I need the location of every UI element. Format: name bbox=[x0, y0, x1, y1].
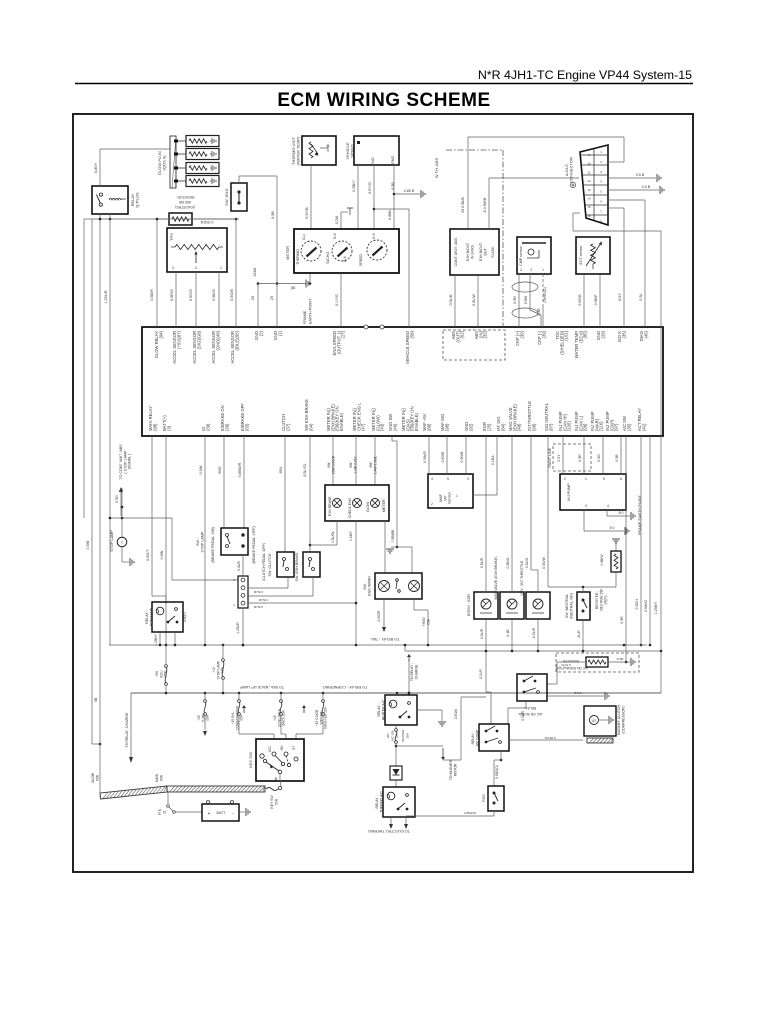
fuse turn 10A bbox=[197, 693, 210, 736]
svg-text:ON: ON bbox=[280, 745, 284, 750]
vehicle speed pin labels bbox=[357, 141, 395, 164]
svg-text:0.5B/P: 0.5B/P bbox=[594, 294, 598, 305]
meter lamps bottom wires bbox=[248, 521, 385, 645]
clutch switch labels bbox=[262, 543, 272, 581]
svg-text:EXH B/CUTIN (HSO): EXH B/CUTIN (HSO) bbox=[466, 243, 474, 261]
glow plugs (4x) bbox=[174, 136, 219, 187]
key sw 50A label bbox=[270, 795, 278, 809]
svg-text:0.5L/R: 0.5L/R bbox=[480, 628, 484, 639]
vehicle speed label bbox=[345, 142, 354, 159]
svg-text:1: 1 bbox=[456, 494, 458, 498]
wire DLC top loop bbox=[468, 137, 624, 162]
A-DLC connector trapezoid bbox=[580, 145, 608, 225]
heater relay gnd bbox=[417, 697, 486, 760]
wire gnd sw bbox=[386, 436, 412, 573]
wire DLC pin6 to ECM diag bbox=[608, 200, 645, 327]
resistor value label bbox=[201, 221, 214, 225]
magnet clutch gnd bbox=[599, 716, 614, 724]
svg-text:RELAY ;ECM MAIN: RELAY ;ECM MAIN bbox=[145, 607, 153, 626]
wire meter tacho to ECM bbox=[335, 273, 341, 327]
wire 1.25LR bbox=[104, 214, 111, 645]
wire batt feed bbox=[160, 436, 166, 645]
neutral resistor label bbox=[595, 588, 608, 610]
svg-text:8 0.5W/B: 8 0.5W/B bbox=[483, 197, 487, 212]
wire relay acon down bbox=[508, 701, 526, 724]
wire DLC pin7 to ECM isok bbox=[608, 208, 624, 327]
svg-text:(BRAKE PEDAL ;OFF): (BRAKE PEDAL ;OFF) bbox=[252, 526, 256, 563]
wire meter qas bbox=[0, 0, 1, 1]
svg-text:SW ;CLUTCH: SW ;CLUTCH bbox=[268, 553, 272, 576]
left h wire y219 bbox=[84, 218, 239, 518]
heater relay label bbox=[377, 699, 385, 720]
svg-text:BATT: BATT bbox=[217, 811, 227, 815]
wire ABS to ECM 2 bbox=[472, 275, 478, 327]
svg-text:2: 2 bbox=[195, 266, 197, 270]
wire relay main bottom bbox=[154, 611, 187, 646]
wire ebrake off bbox=[238, 436, 244, 528]
stop lamp label bbox=[110, 530, 114, 552]
svg-text:0.5L/R: 0.5L/R bbox=[479, 669, 483, 679]
CMP shield ellipses bbox=[512, 282, 538, 318]
svg-text:0.85G(O): 0.85G(O) bbox=[495, 765, 499, 779]
svg-text:0.5L/R: 0.5L/R bbox=[532, 627, 536, 638]
wire right outer bbox=[654, 560, 662, 693]
svg-text:0.1B/Y: 0.1B/Y bbox=[349, 530, 353, 541]
svg-text:B 0: B 0 bbox=[619, 511, 624, 515]
meter lamps top labels bbox=[327, 455, 377, 474]
wire CMP shield bbox=[537, 274, 547, 327]
wire MAG valve bbox=[506, 436, 512, 651]
svg-text:TO RELAY ; TAIL: TO RELAY ; TAIL bbox=[370, 637, 399, 641]
wire relay top to glow plugs bbox=[100, 149, 170, 186]
svg-text:TPS: TPS bbox=[169, 233, 174, 241]
wire TPS p2 to ECM bbox=[195, 272, 197, 327]
svg-text:1: 1 bbox=[542, 268, 544, 272]
svg-text:0.5G: 0.5G bbox=[115, 495, 119, 503]
ECM main relay label bbox=[145, 607, 153, 626]
svg-text:3: 3 bbox=[172, 266, 174, 270]
wire ac sw bbox=[620, 436, 627, 663]
wire vs gnd to ground bbox=[394, 189, 425, 198]
svg-text:0.2W: 0.2W bbox=[335, 215, 339, 224]
gnd wire labels 25 bbox=[251, 296, 274, 300]
wire exh brake sw down bbox=[248, 577, 313, 596]
wire DLC gnd1 bbox=[608, 173, 661, 182]
wire labels TPS bbox=[150, 289, 234, 301]
svg-text:15: 15 bbox=[587, 205, 591, 209]
idle switch box bbox=[231, 183, 247, 211]
wire inj can hi bbox=[557, 436, 563, 474]
wire ebrake on bbox=[218, 436, 224, 528]
svg-text:5: 5 bbox=[603, 477, 605, 481]
svg-text:0.5G/B: 0.5G/B bbox=[578, 294, 582, 306]
wire IG bbox=[199, 436, 205, 645]
wire thermo relay bottom bbox=[389, 817, 393, 829]
to-ABS arrow bbox=[119, 487, 123, 516]
svg-text:TO 55A ; BACK-UP LAMP: TO 55A ; BACK-UP LAMP bbox=[239, 685, 284, 689]
svg-text:0.5L/B: 0.5L/B bbox=[449, 294, 453, 305]
svg-text:0.85Y/G: 0.85Y/G bbox=[544, 736, 556, 740]
stop lamp wiring bbox=[110, 488, 172, 537]
fuse ehl marker bbox=[231, 693, 274, 739]
relay R-GLOW label bbox=[130, 192, 139, 207]
VSV throttle box bbox=[520, 560, 550, 619]
exh brake switch label bbox=[295, 552, 299, 582]
svg-text:D 5R: D 5R bbox=[617, 657, 625, 661]
to electro thermo label bbox=[368, 829, 410, 833]
svg-text:0.5O: 0.5O bbox=[597, 454, 601, 462]
svg-text:(CLUTCH PEDAL ;OFF): (CLUTCH PEDAL ;OFF) bbox=[262, 543, 266, 581]
wire tacho aux bbox=[335, 208, 353, 229]
wire ABS out bbox=[483, 178, 579, 229]
wire idle-sw to ECM bbox=[192, 218, 237, 327]
ECT sensor box bbox=[576, 237, 610, 274]
wire meter glow bbox=[374, 436, 376, 485]
glow lamp bbox=[366, 499, 380, 513]
svg-text:0.5B/BR: 0.5B/BR bbox=[391, 529, 395, 542]
svg-text:SW ;EXH BRAKE: SW ;EXH BRAKE bbox=[295, 552, 299, 582]
MAG valve box bbox=[494, 556, 524, 619]
svg-text:EGR/V ; EGR: EGR/V ; EGR bbox=[467, 594, 471, 616]
ECM top pin labels bbox=[154, 330, 648, 364]
wire ECT 1 bbox=[578, 274, 584, 327]
inj pump pin numbers bbox=[564, 477, 622, 508]
svg-text:13: 13 bbox=[587, 188, 591, 192]
svg-text:25: 25 bbox=[270, 296, 274, 300]
svg-text:VSV ; INT THROTTLE: VSV ; INT THROTTLE bbox=[520, 560, 524, 596]
svg-text:0.5Y: 0.5Y bbox=[618, 293, 622, 301]
svg-text:CHECK ENG: CHECK ENG bbox=[348, 497, 352, 518]
svg-text:0.5W: 0.5W bbox=[199, 465, 203, 474]
meter label bbox=[285, 246, 290, 260]
fuse wiper washer bbox=[296, 693, 328, 739]
svg-text:0.5Y/B: 0.5Y/B bbox=[305, 207, 309, 219]
twist line dashed box bbox=[553, 444, 591, 471]
svg-text:FLASH: FLASH bbox=[491, 246, 495, 257]
thermo relay label bbox=[375, 791, 383, 813]
CMP pin numbers bbox=[520, 268, 544, 272]
resister AC labels bbox=[556, 659, 588, 670]
thermo unit label bbox=[291, 136, 300, 165]
svg-text:(SHIELD): (SHIELD) bbox=[543, 287, 547, 302]
wire vs1 bbox=[352, 165, 358, 229]
relay R-GLOW contacts bbox=[96, 193, 126, 206]
wire inj can lo bbox=[578, 436, 584, 474]
fusible link glow 60A bbox=[91, 772, 167, 799]
svg-text:0.5G/G: 0.5G/G bbox=[189, 289, 193, 301]
TPS box bbox=[167, 228, 227, 272]
svg-text:GND(29): GND(29) bbox=[596, 330, 605, 340]
AC comp relay label bbox=[471, 729, 479, 747]
resistor text block bbox=[175, 195, 195, 209]
key switch contacts bbox=[260, 745, 298, 781]
magnet clutch label bbox=[617, 704, 625, 735]
wire MAF 1 iat bbox=[473, 436, 497, 495]
svg-text:0.5 B: 0.5 B bbox=[642, 185, 651, 189]
svg-text:6: 6 bbox=[620, 477, 622, 481]
wire ECM gnd to earth bbox=[257, 282, 279, 327]
wire relay acon gnd bbox=[547, 691, 609, 700]
svg-text:5B: 5B bbox=[94, 697, 98, 702]
svg-text:0.5R: 0.5R bbox=[513, 296, 517, 304]
svg-text:0.5Y/G: 0.5Y/G bbox=[561, 663, 571, 667]
ECT sensor symbol bbox=[586, 242, 605, 270]
AC on signal relay box bbox=[517, 674, 547, 701]
svg-text:0.1B/L: 0.1B/L bbox=[491, 455, 495, 465]
svg-text:W TH ;ABS: W TH ;ABS bbox=[434, 157, 439, 178]
svg-text:0.5R: 0.5R bbox=[620, 616, 624, 624]
svg-text:METER: METER bbox=[382, 499, 386, 512]
bus2 dest labels bbox=[239, 685, 367, 713]
svg-text:2: 2 bbox=[431, 502, 433, 506]
wire PUS bottom bbox=[404, 811, 494, 829]
TPS potentiometer bbox=[171, 244, 223, 263]
svg-text:0.5B/Y: 0.5B/Y bbox=[352, 180, 356, 192]
wire glow-relay to ECM bbox=[157, 219, 169, 327]
svg-text:16: 16 bbox=[587, 214, 591, 218]
svg-text:0.5W/G: 0.5W/G bbox=[644, 600, 648, 612]
wire ABS in bbox=[461, 137, 468, 229]
svg-text:D-4: D-4 bbox=[302, 234, 306, 239]
svg-text:3: 3 bbox=[530, 268, 532, 272]
fuse leveling back bbox=[273, 693, 286, 739]
svg-text:TWIST LINE: TWIST LINE bbox=[548, 447, 552, 468]
ECT sensor label bbox=[579, 245, 583, 265]
eng warn contacts bbox=[379, 579, 420, 593]
magnet clutch box bbox=[584, 706, 616, 743]
svg-text:MAG VALVE (EXH BRAKE): MAG VALVE (EXH BRAKE) bbox=[494, 556, 498, 599]
svg-text:5: 5 bbox=[447, 477, 449, 481]
svg-text:JXM1: JXM1 bbox=[253, 267, 257, 277]
wire eng warn down bbox=[382, 599, 428, 645]
svg-text:B-6: B-6 bbox=[343, 256, 347, 261]
bus1b horizontal right bbox=[404, 644, 661, 653]
svg-text:CONT UNIT ;ABS: CONT UNIT ;ABS bbox=[454, 237, 458, 266]
thermo unit box bbox=[302, 136, 336, 165]
exh brake lamp bbox=[328, 496, 342, 516]
svg-text:63: 63 bbox=[592, 719, 596, 723]
svg-text:IMS SW: IMS SW bbox=[178, 200, 191, 204]
meter gauge labels bbox=[296, 249, 363, 266]
fuse stop lamp 10A bbox=[212, 645, 225, 693]
frame earth point label right bbox=[638, 494, 642, 534]
svg-text:0.5W: 0.5W bbox=[86, 540, 90, 549]
svg-text:0.5L/GL: 0.5L/GL bbox=[331, 531, 335, 543]
JXM1 label bbox=[253, 267, 257, 277]
inj pump label bbox=[567, 483, 571, 501]
svg-text:KEY SW: KEY SW bbox=[248, 752, 253, 768]
wire 0.5W left bbox=[86, 540, 90, 549]
svg-text:CMP sensor: CMP sensor bbox=[519, 245, 523, 266]
CMP sensor symbol bbox=[522, 243, 546, 258]
svg-text:B-9: B-9 bbox=[333, 233, 337, 238]
svg-text:0.5B: 0.5B bbox=[271, 211, 275, 219]
wire batt from links bbox=[158, 792, 202, 815]
svg-text:0.4B: 0.4B bbox=[506, 629, 510, 637]
svg-text:3: 3 bbox=[585, 504, 587, 508]
fuse AC con bbox=[386, 725, 409, 762]
resister AC resistor bbox=[586, 657, 608, 667]
wire label 0.85Y bbox=[93, 162, 98, 173]
meter tacho gauge bbox=[332, 241, 352, 261]
outer frame bbox=[73, 114, 693, 872]
wire comp relay down bbox=[494, 751, 502, 786]
wire meter exh brake lamp bbox=[332, 436, 334, 485]
thermo relay box bbox=[383, 787, 415, 817]
frame earth point label bbox=[303, 298, 313, 324]
svg-text:0.85 B: 0.85 B bbox=[404, 189, 415, 193]
svg-text:RELAYQ-PLUG: RELAYQ-PLUG bbox=[130, 192, 139, 207]
neutral resistor bbox=[600, 539, 621, 587]
svg-text:N*R 4JH1-TC Engine VP44 System: N*R 4JH1-TC Engine VP44 System-15 bbox=[478, 68, 692, 82]
svg-text:THERMO: THERMO bbox=[296, 249, 300, 265]
svg-text:VEHICLESPEED: VEHICLESPEED bbox=[345, 142, 354, 159]
svg-text:1.25L/R: 1.25L/R bbox=[236, 622, 240, 634]
TPS label bbox=[169, 233, 174, 241]
svg-text:0.5O/G: 0.5O/G bbox=[454, 708, 458, 719]
wire inj ckp bbox=[615, 436, 621, 474]
svg-text:10: 10 bbox=[587, 162, 591, 166]
svg-text:MAGNET CLUTCH(COMPRESSOR): MAGNET CLUTCH(COMPRESSOR) bbox=[617, 704, 625, 735]
wire main relay bbox=[146, 436, 166, 602]
stop lamp bbox=[117, 537, 134, 566]
svg-text:ECT sensor: ECT sensor bbox=[579, 245, 583, 265]
svg-text:EXH BRAKE: EXH BRAKE bbox=[328, 496, 332, 516]
svg-text:0.5Y/G: 0.5Y/G bbox=[368, 182, 372, 194]
wire ABS to ECM 1 bbox=[449, 275, 455, 327]
meter lamps bottom labels bbox=[331, 529, 395, 543]
svg-text:GND: GND bbox=[391, 156, 395, 165]
svg-text:0.5B: 0.5B bbox=[615, 454, 619, 462]
wire VSV bbox=[525, 436, 538, 651]
svg-text:0.5G/R: 0.5G/R bbox=[377, 610, 381, 622]
ECM bottom pin labels bbox=[148, 399, 646, 431]
to relay tail label bbox=[370, 637, 399, 641]
resister AC dashed box bbox=[556, 653, 639, 672]
svg-text:(85: (85 bbox=[291, 286, 296, 290]
svg-text:0.85Y: 0.85Y bbox=[93, 162, 98, 173]
wire sw exh brake bbox=[303, 436, 337, 552]
svg-text:0.5L/R: 0.5L/R bbox=[253, 590, 263, 594]
relay R-GLOW box bbox=[92, 186, 128, 214]
svg-text:1: 1 bbox=[585, 477, 587, 481]
connector 4gang bbox=[238, 576, 248, 608]
svg-text:25: 25 bbox=[251, 296, 255, 300]
ABS control unit box bbox=[450, 229, 499, 275]
svg-text:0.5G/B: 0.5G/B bbox=[230, 289, 234, 301]
wire heater relay top bbox=[396, 693, 398, 695]
glow plug label bbox=[157, 151, 166, 175]
battery ground bbox=[239, 808, 250, 816]
MAF pin numbers bbox=[431, 477, 469, 506]
wire 0.5WG right bbox=[644, 436, 651, 646]
svg-text:0.85G/W: 0.85G/W bbox=[464, 811, 476, 815]
wire MAF 5 bbox=[441, 436, 447, 474]
to relay charge left bbox=[125, 693, 133, 763]
wire inj gnd 3 bbox=[584, 510, 629, 535]
svg-text:B-8: B-8 bbox=[372, 233, 376, 238]
fusible link main 60A bbox=[155, 773, 265, 792]
svg-text:0.5R/G: 0.5R/G bbox=[170, 289, 174, 301]
AC on signal relay label bbox=[518, 706, 543, 716]
svg-text:SPEED: SPEED bbox=[359, 254, 363, 267]
resistor RJDG box bbox=[169, 213, 192, 225]
eng warn bottom labels bbox=[377, 610, 430, 627]
svg-text:85V: 85V bbox=[279, 466, 283, 473]
svg-text:B 5 0: B 5 0 bbox=[574, 691, 581, 695]
svg-text:11: 11 bbox=[587, 170, 590, 174]
svg-text:0.5B/R: 0.5B/R bbox=[150, 289, 154, 301]
wire ECT 2 bbox=[594, 250, 604, 327]
wire TPS p1 to ECM bbox=[218, 272, 220, 327]
svg-text:2: 2 bbox=[564, 477, 566, 481]
svg-text:4: 4 bbox=[607, 504, 609, 508]
wire stoplamp sw left bbox=[172, 518, 238, 580]
svg-text:1.25B/Y: 1.25B/Y bbox=[654, 601, 658, 614]
blower branch bbox=[395, 745, 458, 780]
svg-text:TO RELAY ;CHARGE: TO RELAY ;CHARGE bbox=[125, 712, 129, 747]
svg-text:12: 12 bbox=[587, 179, 591, 183]
heater relay box bbox=[385, 695, 417, 725]
wire clutch bbox=[279, 436, 285, 552]
svg-text:RESISTOR ;: RESISTOR ; bbox=[176, 195, 195, 199]
stop lamp switch labels bbox=[196, 526, 256, 563]
svg-text:29 0.5B/B: 29 0.5B/B bbox=[461, 197, 465, 213]
svg-text:0.5B/O: 0.5B/O bbox=[506, 557, 510, 568]
meter lamps box bbox=[325, 485, 389, 521]
svg-text:0.5L/G: 0.5L/G bbox=[525, 557, 529, 568]
svg-text:0.5L: 0.5L bbox=[639, 293, 643, 300]
svg-text:B: B bbox=[275, 777, 278, 781]
glow plug connector bar bbox=[170, 136, 176, 188]
svg-text:METER: METER bbox=[285, 246, 290, 260]
wire inj mar bbox=[597, 436, 603, 474]
svg-text:TO RELAY ;CHARGE: TO RELAY ;CHARGE bbox=[410, 663, 418, 681]
bus1 horizontal bbox=[109, 644, 647, 647]
fuse ECU 25A bbox=[155, 645, 168, 693]
TPS pin numbers bbox=[172, 266, 222, 270]
CMP sensor box bbox=[517, 237, 551, 274]
svg-text:0.5L/W: 0.5L/W bbox=[472, 294, 476, 306]
svg-text:1: 1 bbox=[220, 266, 222, 270]
svg-text:0.5W/R: 0.5W/R bbox=[423, 451, 427, 463]
PUS label bbox=[482, 794, 486, 802]
svg-text:0.5L/R: 0.5L/R bbox=[237, 561, 241, 571]
svg-text:0.5W: 0.5W bbox=[160, 550, 164, 559]
svg-text:0.5G/B: 0.5G/B bbox=[460, 451, 464, 463]
twist line label bbox=[548, 447, 552, 468]
ECM unit box bbox=[142, 327, 663, 436]
battery box bbox=[202, 801, 239, 822]
wire TPS p3 to ECM bbox=[175, 272, 177, 327]
svg-text:TO ELECTRO THERMO: TO ELECTRO THERMO bbox=[368, 829, 410, 833]
A-DLC obd circle bbox=[570, 182, 575, 187]
svg-text:(BRAKE PEDAL ;ON): (BRAKE PEDAL ;ON) bbox=[211, 527, 215, 563]
to relay charge right bbox=[407, 654, 418, 694]
exh brake switch box bbox=[303, 552, 320, 577]
svg-text:B 0: B 0 bbox=[610, 526, 615, 530]
connector labels bbox=[233, 578, 268, 609]
svg-text:(IDLE/STRG): (IDLE/STRG) bbox=[175, 205, 195, 209]
vehicle speed box bbox=[354, 136, 399, 165]
svg-text:0.1Y/G: 0.1Y/G bbox=[335, 294, 339, 306]
meter lamps label bbox=[382, 499, 386, 512]
thermo unit sensor symbol bbox=[309, 142, 330, 158]
svg-text:14: 14 bbox=[587, 197, 591, 201]
to-ABS label bbox=[119, 444, 132, 480]
svg-text:0.5L/G1: 0.5L/G1 bbox=[303, 463, 307, 477]
earth ground symbol bbox=[258, 273, 311, 290]
